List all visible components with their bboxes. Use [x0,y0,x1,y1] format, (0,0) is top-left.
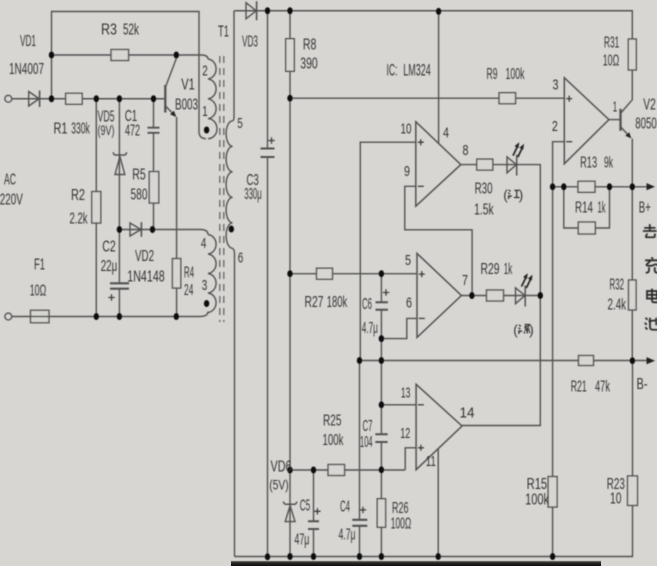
svg-text:180k: 180k [327,294,348,311]
svg-text:R3: R3 [101,21,117,38]
svg-text:R32: R32 [610,276,625,293]
svg-text:2: 2 [202,62,208,79]
svg-text:): ) [519,187,524,202]
svg-text:(9V): (9V) [98,123,115,138]
svg-text:330μ: 330μ [244,186,262,203]
svg-text:LM324: LM324 [403,60,431,79]
svg-text:C2: C2 [102,239,116,256]
svg-text:VD1: VD1 [20,33,36,50]
svg-text:V1: V1 [181,77,195,94]
svg-text:100k: 100k [323,432,344,449]
svg-text:390: 390 [300,56,318,73]
svg-text:52k: 52k [123,21,139,38]
svg-text:10: 10 [401,120,412,137]
svg-text:B+: B+ [639,200,651,217]
svg-text:6: 6 [238,249,244,266]
svg-text:5: 5 [237,115,243,132]
svg-text:7: 7 [462,272,468,289]
svg-text:330k: 330k [71,121,90,138]
svg-text:4: 4 [443,124,449,141]
svg-text:1N4007: 1N4007 [9,61,44,78]
svg-text:2.2k: 2.2k [70,211,88,228]
svg-text:1: 1 [613,99,618,116]
svg-text:R5: R5 [132,167,146,184]
svg-text:VD6: VD6 [271,459,292,476]
svg-text:IC:: IC: [387,60,398,79]
svg-text:22μ: 22μ [101,258,118,275]
svg-text:R2: R2 [71,187,85,204]
svg-text:11: 11 [426,453,436,470]
svg-text:8: 8 [463,142,469,159]
svg-text:F1: F1 [34,257,45,274]
svg-text:1N4148: 1N4148 [127,269,165,286]
svg-text:220V: 220V [0,192,23,209]
svg-text:10Ω: 10Ω [30,283,47,300]
svg-text:B003: B003 [175,97,198,114]
svg-text:R29: R29 [481,261,500,278]
svg-text:B-: B- [637,376,648,393]
svg-text:C6: C6 [362,296,372,313]
svg-text:C4: C4 [340,499,350,516]
svg-text:VD3: VD3 [242,34,258,51]
svg-text:4: 4 [201,235,207,252]
svg-text:10: 10 [610,491,622,508]
svg-text:R4: R4 [184,265,194,282]
svg-text:R1: R1 [54,121,68,138]
svg-text:4.7μ: 4.7μ [362,320,378,337]
svg-text:100k: 100k [525,492,549,509]
svg-text:104: 104 [360,434,373,451]
svg-text:R9: R9 [487,66,498,83]
svg-text:3: 3 [202,277,208,294]
svg-text:47μ: 47μ [294,531,309,548]
svg-text:4.7μ: 4.7μ [339,527,356,544]
svg-text:R27: R27 [305,294,324,311]
svg-text:(5V): (5V) [269,478,289,493]
svg-text:R30: R30 [475,181,493,198]
svg-text:2.4k: 2.4k [608,296,627,313]
svg-text:100k: 100k [506,66,525,83]
svg-text:9: 9 [404,163,410,180]
svg-text:1.5k: 1.5k [474,202,494,219]
svg-text:6: 6 [406,294,412,311]
svg-text:47k: 47k [595,378,610,395]
svg-text:R15: R15 [527,476,548,493]
svg-text:1k: 1k [598,200,606,217]
svg-text:R8: R8 [303,37,317,54]
svg-text:V2: V2 [643,96,656,113]
svg-text:R31: R31 [604,35,620,52]
svg-text:472: 472 [125,123,140,140]
svg-text:C7: C7 [363,418,373,435]
svg-text:C5: C5 [300,498,311,515]
svg-text:100Ω: 100Ω [391,515,412,532]
svg-text:(: ( [513,322,518,337]
svg-text:10Ω: 10Ω [603,53,620,70]
svg-text:R21: R21 [571,378,587,395]
svg-text:1k: 1k [504,261,513,278]
svg-text:T1: T1 [218,24,229,41]
svg-text:1: 1 [202,103,208,120]
svg-text:AC: AC [4,172,16,189]
svg-text:R25: R25 [323,413,342,430]
svg-text:5: 5 [405,252,411,269]
svg-text:8050: 8050 [635,116,657,133]
svg-text:R13: R13 [580,155,597,172]
svg-text:12: 12 [400,425,410,442]
svg-text:R14: R14 [575,200,593,217]
svg-text:580: 580 [131,187,148,204]
svg-text:24: 24 [184,282,193,299]
svg-text:9k: 9k [604,155,613,172]
svg-text:VD2: VD2 [135,248,154,265]
svg-text:(: ( [503,187,508,202]
svg-text:13: 13 [401,384,411,401]
svg-text:3: 3 [553,77,559,94]
svg-text:2: 2 [552,118,558,135]
svg-text:14: 14 [460,404,475,421]
